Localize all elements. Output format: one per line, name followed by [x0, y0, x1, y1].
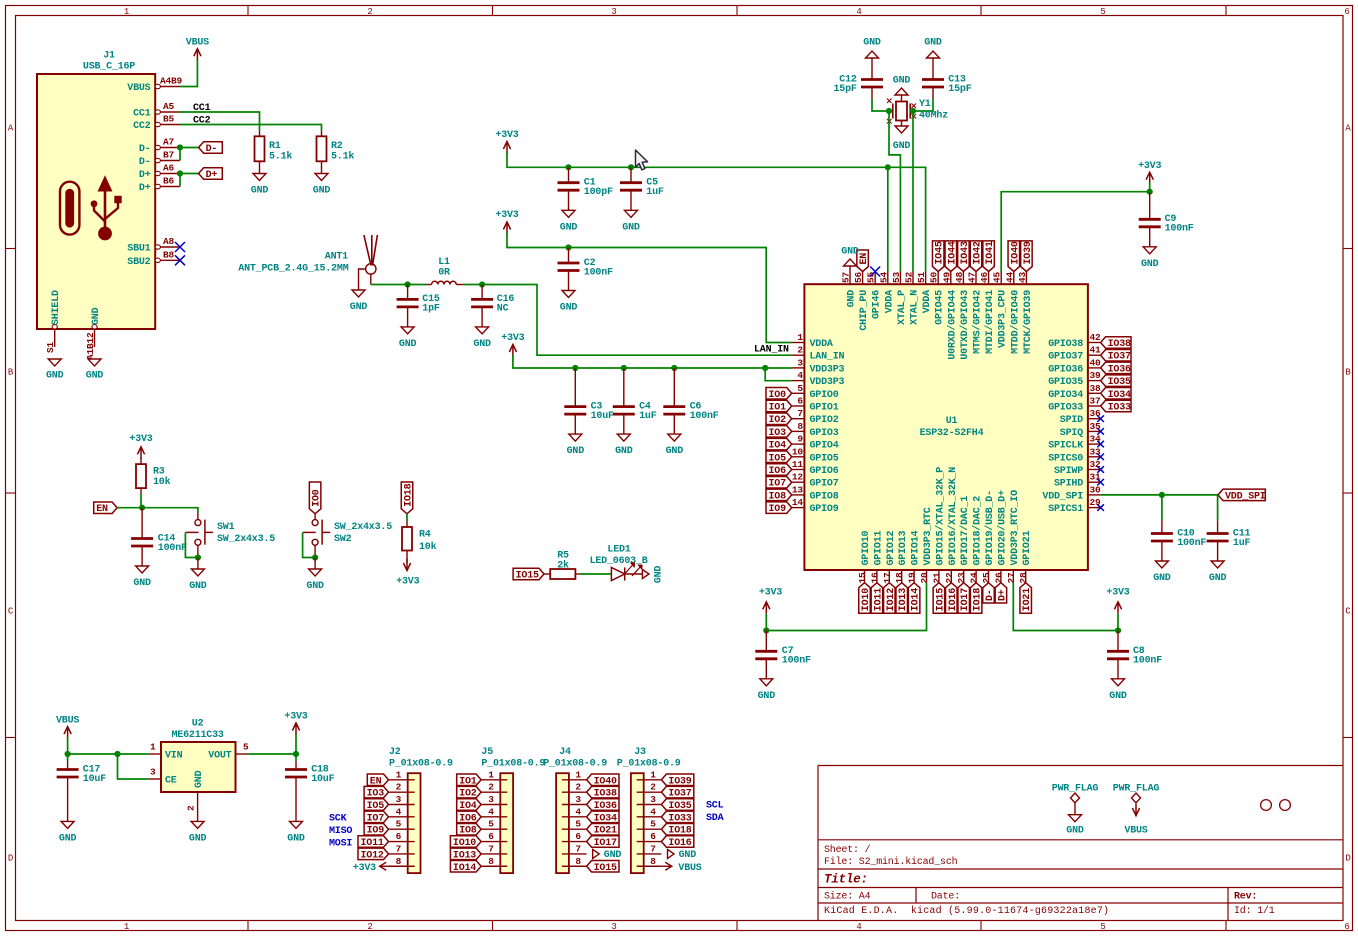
- J3 pin 5: [637, 828, 662, 830]
- svg-text:49: 49: [941, 271, 952, 283]
- svg-text:GND: GND: [924, 38, 942, 49]
- svg-text:100pF: 100pF: [584, 187, 613, 198]
- svg-text:VBUS: VBUS: [186, 38, 209, 49]
- svg-text:GPIO11: GPIO11: [873, 530, 884, 565]
- svg-text:SPID: SPID: [1060, 415, 1083, 426]
- global label IO18 at J3: [661, 823, 693, 835]
- svg-text:GND: GND: [567, 446, 585, 457]
- svg-text:IO36: IO36: [1108, 364, 1131, 375]
- junction C10: [1159, 492, 1165, 498]
- U1 pin 49 U0RXD/GPIO44: [950, 272, 952, 285]
- svg-text:R1: R1: [269, 141, 281, 152]
- svg-text:100nF: 100nF: [1177, 538, 1206, 549]
- global label IO17: [958, 583, 970, 614]
- capacitor C7: [765, 631, 767, 652]
- svg-text:11: 11: [792, 459, 804, 470]
- svg-text:L1: L1: [438, 257, 450, 268]
- wire D+: [180, 174, 199, 187]
- svg-text:6: 6: [575, 831, 581, 842]
- J2 pin 8: [389, 865, 415, 867]
- global label IO6: [766, 464, 792, 476]
- connector J5 P_01x08-0.9: [500, 773, 513, 873]
- svg-text:53: 53: [891, 271, 902, 283]
- U2 pin 1 VIN: [148, 753, 161, 755]
- svg-text:25: 25: [981, 572, 992, 584]
- global label D-: [983, 583, 995, 603]
- svg-text:1uF: 1uF: [646, 187, 664, 198]
- ground at C17: [61, 821, 74, 828]
- svg-text:100nF: 100nF: [690, 411, 719, 422]
- svg-text:GPI46: GPI46: [872, 290, 883, 319]
- svg-text:ESP32-S2FH4: ESP32-S2FH4: [920, 428, 984, 439]
- capacitor C9: [1149, 192, 1151, 220]
- global label EN at pin56: [857, 250, 869, 272]
- U1 pin 44 MTDD/GPIO40: [1013, 272, 1015, 285]
- no-connect pin 29: [1097, 504, 1104, 511]
- svg-text:42: 42: [1090, 332, 1102, 343]
- junction rail3 C6: [671, 365, 677, 371]
- svg-text:GPIO35: GPIO35: [1048, 377, 1083, 388]
- svg-text:22: 22: [944, 572, 955, 584]
- svg-text:VDD3P3_RTC_IO: VDD3P3_RTC_IO: [1010, 490, 1021, 566]
- J1 pin S1 SHIELD: [54, 329, 56, 347]
- svg-text:GPIO13: GPIO13: [898, 530, 909, 565]
- svg-text:EN: EN: [96, 504, 108, 515]
- capacitor C1: [568, 167, 570, 182]
- ground at C16: [476, 327, 489, 334]
- global label IO14 at J5: [450, 861, 481, 873]
- svg-text:GND: GND: [313, 186, 331, 197]
- svg-text:VBUS: VBUS: [1124, 826, 1147, 837]
- global label IO44: [945, 241, 957, 272]
- global label IO16 at J3: [661, 836, 693, 848]
- svg-text:IO13: IO13: [898, 588, 909, 611]
- svg-text:9: 9: [797, 434, 803, 445]
- svg-text:VDD_SPI: VDD_SPI: [1042, 491, 1083, 502]
- J2 pin 2: [389, 791, 415, 793]
- svg-text:GND: GND: [287, 833, 305, 844]
- svg-text:C: C: [8, 606, 14, 616]
- svg-text:2: 2: [797, 345, 803, 356]
- svg-text:GND: GND: [189, 833, 207, 844]
- svg-text:4: 4: [856, 7, 861, 17]
- J1 pin B5 CC2: [155, 124, 180, 126]
- svg-text:GPIO10: GPIO10: [861, 530, 872, 565]
- svg-text:GPIO2: GPIO2: [810, 415, 839, 426]
- svg-text:U0RXD/GPIO44: U0RXD/GPIO44: [946, 290, 958, 360]
- svg-text:IO1: IO1: [769, 403, 787, 414]
- svg-text:6: 6: [797, 396, 803, 407]
- ground at U2: [197, 806, 199, 822]
- svg-text:1: 1: [124, 922, 129, 932]
- junction crystal left: [886, 108, 892, 114]
- svg-text:15pF: 15pF: [833, 84, 856, 95]
- no-connect SBU1: [175, 242, 185, 252]
- svg-text:IO45: IO45: [935, 241, 946, 264]
- svg-text:IO0: IO0: [312, 489, 323, 507]
- svg-text:A: A: [8, 123, 14, 133]
- global label IO36 at J4: [587, 799, 619, 811]
- capacitor C16: [481, 285, 483, 300]
- svg-text:A4B9: A4B9: [160, 76, 183, 87]
- svg-text:27: 27: [1006, 572, 1017, 584]
- svg-text:1: 1: [575, 769, 581, 780]
- svg-text:GND: GND: [473, 339, 491, 350]
- J1 pin A1B12 GND: [94, 329, 96, 347]
- wire +3V3 rail1: [507, 152, 926, 272]
- ground at LED1: [642, 570, 649, 579]
- svg-text:IO6: IO6: [769, 466, 787, 477]
- svg-text:+3V3: +3V3: [501, 333, 524, 344]
- svg-text:2: 2: [488, 782, 494, 793]
- svg-text:D-: D-: [206, 144, 218, 155]
- global label IO35: [1101, 375, 1131, 387]
- svg-text:1: 1: [150, 742, 156, 753]
- wire XTAL_P to pin53: [889, 111, 900, 272]
- no-connect pin 31: [1097, 479, 1104, 486]
- J5 pin 3: [481, 804, 507, 806]
- U1 pin 53 XTAL_P: [899, 272, 901, 285]
- svg-text:3: 3: [611, 922, 616, 932]
- svg-text:3: 3: [650, 794, 656, 805]
- svg-text:GPIO20/USB_D+: GPIO20/USB_D+: [996, 490, 1008, 566]
- global label IO13: [896, 583, 908, 614]
- global label IO0: [766, 388, 792, 400]
- svg-text:56: 56: [853, 271, 864, 283]
- J4 pin 8: [562, 865, 587, 867]
- J4 pin 3: [562, 804, 587, 806]
- U1 pin 54 VDDA: [887, 272, 889, 285]
- svg-text:+3V3: +3V3: [759, 588, 782, 599]
- svg-text:15: 15: [857, 572, 868, 584]
- svg-text:1: 1: [650, 769, 656, 780]
- ground at C18: [290, 821, 303, 828]
- svg-text:14: 14: [792, 497, 804, 508]
- capacitor C2: [568, 248, 570, 264]
- svg-text:GND: GND: [1209, 573, 1227, 584]
- svg-text:GPIO3: GPIO3: [810, 428, 839, 439]
- svg-text:5: 5: [797, 383, 803, 394]
- svg-text:IO33: IO33: [668, 813, 691, 824]
- U1 pin 34 SPICLK: [1088, 443, 1101, 445]
- svg-text:40: 40: [1090, 357, 1102, 368]
- svg-text:GND: GND: [133, 578, 151, 589]
- power +3V3 arrow at J2: [380, 862, 387, 870]
- svg-text:VDDA: VDDA: [922, 290, 933, 313]
- wire VBUS to J1: [180, 59, 197, 87]
- svg-text:IO40: IO40: [594, 776, 617, 787]
- svg-text:A: A: [1345, 123, 1351, 133]
- global label IO40: [1008, 241, 1020, 272]
- svg-text:GND: GND: [847, 290, 858, 308]
- U1 pin 5 GPIO0: [792, 392, 805, 394]
- svg-text:50: 50: [929, 271, 940, 283]
- svg-text:1: 1: [488, 769, 494, 780]
- junction C8: [1115, 627, 1121, 633]
- J2 pin 7: [389, 853, 415, 855]
- ground at C7: [760, 679, 773, 686]
- global label IO38: [1101, 337, 1131, 349]
- svg-text:4: 4: [488, 806, 494, 817]
- svg-text:GND: GND: [654, 566, 665, 584]
- global label IO18: [401, 482, 413, 514]
- U1 pin 43 MTCK/GPIO39: [1025, 272, 1027, 285]
- J4 pin 5: [562, 828, 587, 830]
- junction rail1 C5: [628, 164, 634, 170]
- U1 pin 51 VDDA: [925, 272, 927, 285]
- no-connect pin 35: [1097, 428, 1104, 435]
- svg-text:28: 28: [1018, 572, 1029, 584]
- capacitor C17: [67, 754, 69, 761]
- global label IO40 at J4: [587, 774, 619, 786]
- global label IO5: [766, 451, 792, 463]
- wire antenna feed: [370, 274, 372, 284]
- svg-text:P_01x08-0.9: P_01x08-0.9: [617, 759, 681, 770]
- svg-text:IO7: IO7: [769, 479, 787, 490]
- svg-text:GND: GND: [679, 850, 697, 861]
- U1 pin 6 GPIO1: [792, 405, 805, 407]
- svg-text:GND: GND: [758, 691, 776, 702]
- svg-text:GPIO45: GPIO45: [935, 290, 946, 325]
- svg-text:SCL: SCL: [706, 800, 724, 811]
- wire SW2 bracket: [303, 532, 316, 557]
- svg-text:IO15: IO15: [935, 588, 946, 611]
- svg-text:A5: A5: [163, 101, 175, 112]
- title block: [818, 765, 1343, 767]
- svg-text:23: 23: [956, 572, 967, 584]
- svg-text:IO12: IO12: [361, 850, 384, 861]
- svg-text:17: 17: [882, 572, 893, 584]
- junction D-: [177, 144, 183, 150]
- svg-text:+3V3: +3V3: [396, 577, 419, 588]
- svg-text:6: 6: [1344, 7, 1349, 17]
- svg-text:GPIO19/USB_D-: GPIO19/USB_D-: [984, 490, 996, 565]
- svg-text:SW_2x4x3.5: SW_2x4x3.5: [217, 534, 275, 545]
- J5 pin 8: [481, 865, 507, 867]
- svg-text:GPIO12: GPIO12: [886, 530, 897, 565]
- svg-text:7: 7: [396, 843, 402, 854]
- svg-text:19: 19: [907, 572, 918, 584]
- U1 pin 17 GPIO12: [888, 570, 890, 583]
- svg-text:10: 10: [792, 446, 804, 457]
- junction rail1 pin54: [885, 164, 891, 170]
- svg-text:GPIO5: GPIO5: [810, 453, 839, 464]
- U1 pin 26 GPIO20/USB_D+: [1000, 570, 1002, 583]
- svg-text:GND: GND: [1109, 691, 1127, 702]
- wire pin27 to C8: [1013, 583, 1118, 631]
- connector J2 P_01x08-0.9: [408, 773, 421, 873]
- svg-text:4: 4: [575, 806, 581, 817]
- svg-text:VDD3P3_RTC: VDD3P3_RTC: [923, 507, 934, 565]
- svg-text:10k: 10k: [153, 476, 171, 488]
- global label IO39: [1021, 241, 1033, 272]
- global label IO13 at J5: [450, 848, 481, 860]
- svg-text:39: 39: [1090, 370, 1102, 381]
- U1 pin 10 GPIO5: [792, 456, 805, 458]
- junction rail2 C2: [565, 244, 571, 250]
- junction rail3 C4: [621, 365, 627, 371]
- U1 pin 1 VDDA: [792, 342, 805, 344]
- svg-text:VIN: VIN: [165, 751, 183, 762]
- svg-text:+3V3: +3V3: [1138, 161, 1161, 172]
- global label IO7 at J2: [364, 811, 388, 823]
- ground above crystal: [901, 95, 903, 102]
- U1 pin 28 GPIO21: [1025, 570, 1027, 583]
- svg-text:GPIO1: GPIO1: [810, 403, 839, 414]
- global label IO45: [932, 241, 944, 272]
- svg-text:GND: GND: [893, 76, 911, 87]
- U1 pin 8 GPIO3: [792, 430, 805, 432]
- global label IO43: [958, 241, 970, 272]
- junction D+: [177, 170, 183, 176]
- J4 pin 2: [562, 791, 587, 793]
- svg-text:GPIO21: GPIO21: [1022, 530, 1033, 565]
- svg-text:1: 1: [797, 332, 803, 343]
- U1 pin 39 GPIO35: [1088, 380, 1101, 382]
- svg-text:B: B: [1345, 367, 1351, 377]
- global label IO16: [946, 583, 958, 614]
- svg-text:XTAL_P: XTAL_P: [897, 290, 908, 325]
- svg-text:21: 21: [931, 572, 942, 584]
- svg-text:SDA: SDA: [706, 813, 724, 824]
- U1 pin 15 GPIO10: [864, 570, 866, 583]
- svg-text:12: 12: [792, 472, 804, 483]
- svg-text:J3: J3: [634, 747, 646, 758]
- svg-text:Title:: Title:: [824, 873, 868, 887]
- svg-text:D+: D+: [997, 589, 1008, 601]
- svg-text:B7: B7: [163, 150, 175, 161]
- J1 pin A6 D+: [155, 173, 180, 175]
- wire CE: [118, 754, 149, 779]
- svg-text:SW2: SW2: [334, 534, 352, 545]
- svg-text:GND: GND: [194, 770, 205, 788]
- ground at SW1: [197, 558, 199, 570]
- U1 pin 55 GPI46: [874, 272, 876, 285]
- svg-text:48: 48: [954, 271, 965, 283]
- svg-text:B: B: [8, 367, 14, 377]
- capacitor C8: [1117, 631, 1119, 652]
- U1 pin 47 MTMS/GPIO42: [975, 272, 977, 285]
- ground at C14: [136, 566, 149, 573]
- svg-text:6: 6: [1344, 922, 1349, 932]
- ground at C2: [562, 291, 575, 298]
- U1 pin 12 GPIO7: [792, 481, 805, 483]
- junction crystal right: [910, 108, 916, 114]
- svg-text:GND: GND: [666, 446, 684, 457]
- svg-text:10uF: 10uF: [591, 411, 614, 422]
- svg-text:IO2: IO2: [769, 415, 787, 426]
- U1 pin 13 GPIO8: [792, 494, 805, 496]
- resistor R5: [544, 573, 550, 575]
- svg-text:SW1: SW1: [217, 522, 235, 533]
- svg-text:SPICLK: SPICLK: [1048, 441, 1083, 452]
- U1 pin 21 GPIO15/XTAL_32K_P: [938, 570, 940, 583]
- U1 pin 40 GPIO36: [1088, 367, 1101, 369]
- svg-text:J1: J1: [103, 51, 115, 62]
- no-connect SBU2: [175, 255, 185, 265]
- svg-text:D+: D+: [206, 170, 218, 181]
- svg-text:Y1: Y1: [919, 99, 931, 110]
- global label IO6 at J5: [457, 811, 481, 823]
- capacitor C3: [574, 368, 576, 407]
- svg-text:EN: EN: [370, 776, 382, 787]
- ground at SW2: [314, 558, 316, 570]
- svg-text:4: 4: [396, 806, 402, 817]
- svg-text:Date:: Date:: [931, 892, 960, 903]
- svg-text:IO10: IO10: [861, 588, 872, 611]
- svg-text:SPICS0: SPICS0: [1048, 453, 1083, 464]
- junction C18: [293, 751, 299, 757]
- svg-text:GPIO14: GPIO14: [911, 530, 922, 565]
- svg-text:VDDA: VDDA: [810, 339, 833, 350]
- svg-text:1uF: 1uF: [1233, 538, 1251, 549]
- ground at J4 pin 7: [593, 849, 600, 858]
- wire VOUT to +3V3: [248, 753, 296, 755]
- J3 pin 1: [637, 779, 662, 781]
- svg-text:GND: GND: [615, 446, 633, 457]
- svg-text:IO15: IO15: [516, 571, 539, 582]
- wire D-: [180, 148, 199, 161]
- svg-text:IO34: IO34: [1108, 390, 1131, 401]
- U1 pin 50 GPIO45: [937, 272, 939, 285]
- resistor R4: [406, 514, 408, 521]
- svg-text:XTAL_N: XTAL_N: [910, 290, 921, 325]
- svg-text:3: 3: [488, 794, 494, 805]
- U1 pin 57 GND: [849, 272, 851, 285]
- svg-text:IO16: IO16: [948, 588, 959, 611]
- svg-text:D: D: [8, 853, 13, 863]
- resistor R3: [140, 458, 142, 464]
- U1 pin 16 GPIO11: [876, 570, 878, 583]
- svg-text:LED1: LED1: [607, 545, 630, 556]
- U1 pin 46 MTDI/GPIO41: [988, 272, 990, 285]
- U1 pin 35 SPIQ: [1088, 430, 1101, 432]
- no-connect pin 36: [1097, 415, 1104, 422]
- svg-text:GND: GND: [560, 222, 578, 233]
- svg-text:7: 7: [797, 408, 803, 419]
- svg-text:+3V3: +3V3: [1106, 588, 1129, 599]
- wire R3 to EN junction: [140, 494, 142, 508]
- svg-text:54: 54: [878, 271, 889, 283]
- J5 pin 1: [481, 779, 507, 781]
- svg-text:VBUS: VBUS: [678, 863, 701, 874]
- svg-text:SHIELD: SHIELD: [51, 290, 62, 325]
- svg-text:P_01x08-0.9: P_01x08-0.9: [389, 759, 453, 770]
- wire +3V3 rail2: [507, 233, 792, 343]
- wire pin45 to C9 rail: [1001, 192, 1149, 272]
- junction C16: [479, 281, 485, 287]
- global label IO18: [970, 583, 982, 614]
- global label IO11 at J2: [358, 836, 389, 848]
- global label IO42: [970, 241, 982, 272]
- capacitor C6: [673, 368, 675, 407]
- J4 pin 4: [562, 816, 587, 818]
- svg-text:IO1: IO1: [459, 776, 477, 787]
- svg-text:7: 7: [488, 843, 494, 854]
- ground at C6: [668, 434, 681, 441]
- wire pin20 to C7: [766, 583, 926, 631]
- ground above C12: [866, 51, 879, 58]
- svg-text:IO8: IO8: [769, 491, 787, 502]
- svg-text:R2: R2: [331, 141, 343, 152]
- no-connect pin 55: [870, 267, 880, 277]
- svg-text:IO17: IO17: [594, 838, 617, 849]
- svg-text:1uF: 1uF: [639, 411, 657, 422]
- svg-text:IO44: IO44: [947, 241, 958, 264]
- global label IO8: [766, 489, 792, 501]
- svg-text:100nF: 100nF: [158, 543, 187, 554]
- U1 pin 24 GPIO18/DAC_2: [975, 570, 977, 583]
